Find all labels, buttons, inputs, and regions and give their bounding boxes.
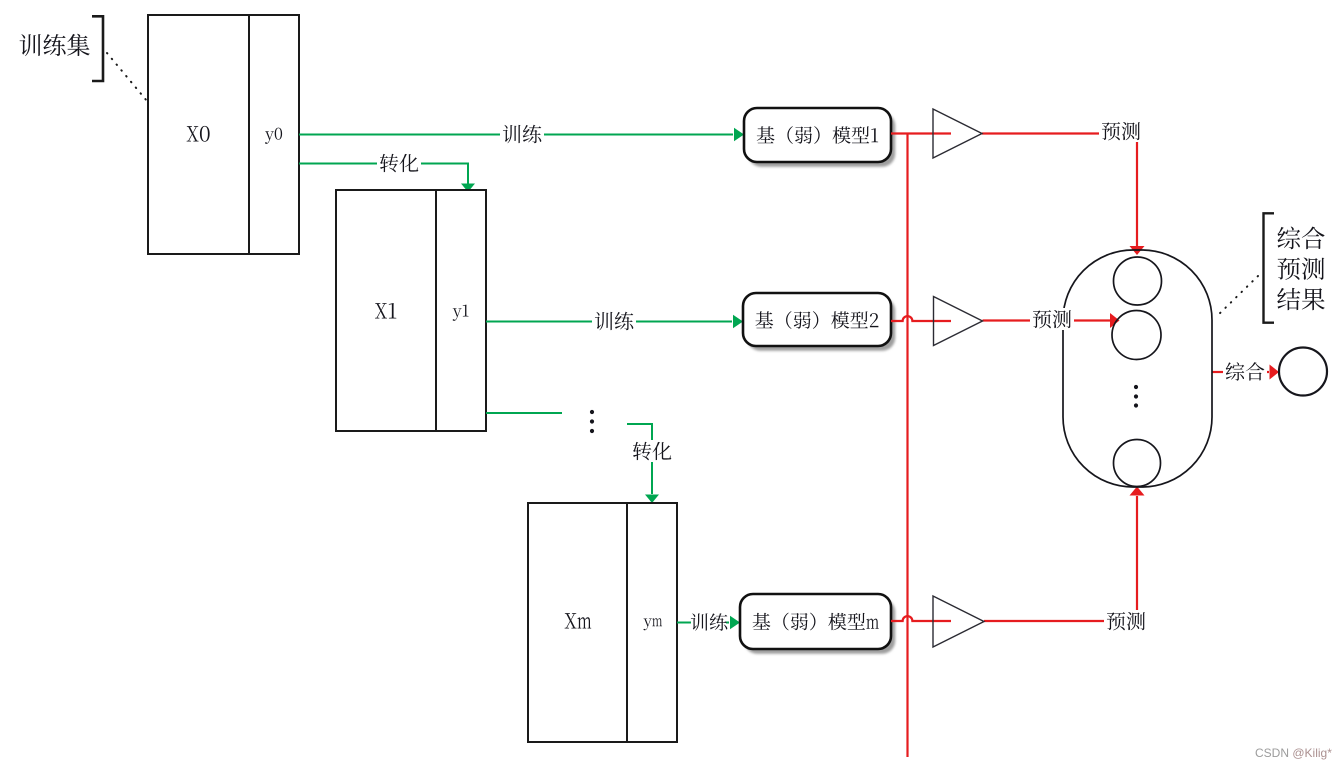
label 转化 row2: [630, 440, 674, 462]
text ym: [643, 618, 662, 630]
model box 基（弱）模型2: [747, 298, 895, 351]
text X0: [187, 126, 210, 142]
red wire 预测 row1: [982, 134, 1137, 247]
red bus vertical: [906, 134, 908, 758]
text y1: [453, 305, 469, 321]
label 预测 row m: [1104, 610, 1148, 632]
wire stub from X1 bottom: [486, 412, 562, 414]
label 训练集: [20, 34, 90, 56]
ellipsis dots in stadium: [1134, 385, 1138, 389]
model box 基（弱）模型m: [744, 599, 895, 654]
circle node 1: [1114, 257, 1162, 305]
bracket right of 训练集: [92, 16, 103, 81]
red wire 预测 row m: [984, 496, 1137, 621]
red wire model1 to triangle1: [891, 132, 951, 134]
circle node 2: [1112, 311, 1161, 360]
dotted leader to box X0: [107, 53, 147, 101]
triangle amp m: [933, 596, 984, 647]
text Xm: [565, 613, 592, 628]
label 预测 row1: [1099, 120, 1143, 142]
label 训练 row1: [500, 123, 544, 145]
box X0: [148, 15, 299, 254]
ellipsis dots mid-left: [590, 410, 594, 414]
label 转化 row1: [377, 152, 421, 174]
wire 训练 X0 to model1: [299, 134, 733, 136]
label 训练 row2: [592, 310, 636, 332]
text X1: [375, 303, 396, 319]
circle node 3: [1114, 440, 1161, 487]
triangle amp 2: [934, 297, 983, 346]
triangle amp 1: [933, 109, 982, 158]
red wire 预测 row2: [983, 319, 1112, 321]
wire 转化 to Xm: [627, 424, 652, 494]
wire 训练 Xm to modelm: [677, 622, 691, 624]
bracket of 综合预测结果: [1264, 213, 1275, 322]
red wire 综合: [1212, 371, 1226, 373]
label 综合: [1223, 361, 1267, 383]
stadium aggregate: [1063, 250, 1212, 487]
dotted leader to stadium: [1216, 276, 1258, 317]
wire 转化 X0 to X1: [299, 164, 468, 185]
box X1: [336, 190, 486, 431]
red wire modelm to trianglem (hop): [891, 616, 951, 621]
label 综合预测结果: [1278, 227, 1325, 250]
wire 训练 X1 to model2: [486, 321, 732, 323]
red wire model2 to triangle2 (hop): [891, 316, 951, 321]
label 训练 row m: [691, 613, 727, 631]
model box 基（弱）模型1: [748, 113, 895, 167]
label 预测 row2: [1030, 308, 1074, 330]
svg-text:CSDN @Kilig*: CSDN @Kilig*: [1255, 746, 1332, 760]
text y0: [265, 128, 282, 144]
output circle: [1279, 348, 1327, 396]
box Xm: [528, 503, 677, 742]
